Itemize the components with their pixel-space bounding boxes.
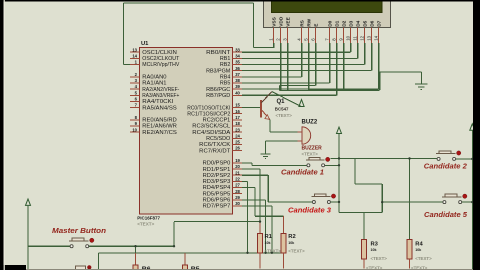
svg-text:R4: R4 (415, 241, 423, 247)
wire RB1-D4 horizontal (242, 57, 358, 59)
wire ground feed vertical (420, 72, 422, 84)
transistor Q1 collector diagonal (261, 92, 272, 103)
wire RD3 horizontal (242, 180, 248, 182)
pin 28 (RD5/PSP5) stub (233, 193, 243, 195)
svg-text:Master Button: Master Button (52, 226, 107, 235)
wire rail A horizontal (button pull network) (174, 221, 260, 223)
wire LCD D3 vertical (350, 43, 352, 52)
push button Candidate 2 left terminal (437, 157, 440, 160)
wire Candidate 5 right (462, 201, 472, 203)
svg-text:<TEXT>: <TEXT> (137, 222, 154, 227)
wire R6 from master net (135, 246, 137, 253)
wire LCD VDD vertical (280, 43, 282, 91)
resistor R3 bottom lead (363, 259, 365, 269)
svg-text:<TEXT>: <TEXT> (276, 113, 293, 118)
svg-text:RW: RW (307, 18, 313, 26)
resistor R5 body (183, 265, 188, 270)
wire link horizontal y184 (355, 183, 382, 185)
pin 2 (RA0/AN0) stub (130, 76, 140, 78)
pin 25 (RC6/TX/CK) stub (233, 143, 243, 145)
pin 39 (RB6/PGC) stub (233, 88, 243, 90)
svg-text:RC6/TX/CK: RC6/TX/CK (199, 142, 231, 148)
push button Candidate 1 actuator bar (306, 159, 325, 161)
resistor R4 body (407, 239, 412, 258)
wire RD6 vertical (265, 200, 267, 253)
wire master button left (28, 245, 70, 247)
wire RD3 vertical to bottom rail (247, 181, 249, 252)
svg-text:BC547: BC547 (275, 107, 289, 112)
push button Candidate 5 right terminal (459, 201, 462, 204)
pin 7 (RA5/AN4/SS) stub (130, 107, 140, 109)
pin 5 (RA3/AN3/VREF+) stub (130, 94, 140, 96)
LCD pin 12 (D5) stub (364, 28, 366, 44)
svg-text:RE0/AN5/RD: RE0/AN5/RD (142, 118, 177, 124)
svg-text:RB0/INT: RB0/INT (206, 50, 231, 56)
wire Candidate 1 right (325, 164, 339, 166)
svg-text:RB3/PGM: RB3/PGM (206, 68, 230, 74)
wire R2 rail horizontal (255, 215, 284, 217)
letterbox corner bottom-left (0, 265, 26, 270)
wire LCD RS vertical (301, 43, 303, 77)
wire MCLR net top horizontal (123, 2, 253, 4)
transistor Q1 emitter diagonal (262, 110, 270, 120)
junction dot rail RD6 (264, 252, 266, 254)
wire buzzer to ground (266, 140, 298, 142)
svg-text:14: 14 (132, 53, 137, 58)
IC U1 PIC16F877 microcontroller body (140, 48, 233, 215)
svg-text:10: 10 (345, 35, 350, 40)
pin 1 (MCLR/Vpp/THV) stub (130, 64, 140, 66)
svg-text:RD5/PSP5: RD5/PSP5 (203, 191, 231, 197)
resistor R3 body (362, 239, 367, 258)
push button Candidate 5 actuator bump (445, 194, 457, 197)
svg-text:RA3/AN3/VREF+: RA3/AN3/VREF+ (142, 93, 179, 99)
wire power stem x339 (338, 134, 340, 213)
ground symbol right of LCD (415, 83, 428, 85)
svg-text:RA5/AN4/SS: RA5/AN4/SS (142, 105, 177, 111)
wire RB5-D0 horizontal (242, 82, 330, 84)
svg-text:RD6/PSP6: RD6/PSP6 (203, 198, 231, 204)
svg-text:21: 21 (235, 170, 240, 175)
svg-text:27: 27 (235, 183, 240, 188)
svg-text:<TEXT>: <TEXT> (371, 256, 388, 261)
resistor R5 lead (184, 253, 186, 265)
pin 14 (OSC2/CLKOUT) stub (130, 57, 140, 59)
svg-text:10k: 10k (371, 248, 377, 252)
wire LCD D7 vertical (378, 43, 380, 89)
power symbol at Q1 collector (299, 100, 304, 107)
svg-text:OSC1/CLKIN: OSC1/CLKIN (142, 50, 177, 56)
svg-text:16: 16 (235, 109, 240, 114)
svg-text:RD3/PSP3: RD3/PSP3 (203, 179, 231, 185)
svg-text:VEE: VEE (286, 16, 292, 26)
push button Candidate 3 left terminal (312, 201, 315, 204)
power symbol at master button (26, 199, 31, 205)
push button Candidate 2 actuator bump (439, 151, 451, 154)
wire E vertical (315, 43, 317, 86)
transistor Q1 emitter arrowhead (265, 115, 270, 120)
wire VSS link horizontal (254, 46, 274, 48)
wire LCD D6 vertical (371, 43, 373, 71)
svg-text:RD7/PSP7: RD7/PSP7 (203, 204, 231, 210)
svg-text:15: 15 (235, 103, 240, 108)
wire buzzer ground vertical (265, 141, 267, 153)
junction dot R4 link (408, 157, 410, 159)
svg-text:RC3/SCK/SCL: RC3/SCK/SCL (192, 124, 230, 130)
wire RD2 vertical to Candidate 3 (267, 175, 269, 202)
svg-text:Candidate 2: Candidate 2 (424, 163, 467, 170)
ground symbol below buzzer (260, 153, 270, 155)
power symbol right rail (470, 124, 475, 130)
junction dot rail A R1 (259, 220, 261, 222)
wire RB4-RS horizontal (242, 76, 302, 78)
push button Candidate 1 actuator dot (326, 157, 330, 161)
svg-text:RB7/PGD: RB7/PGD (206, 93, 230, 99)
wire RD4 horizontal (242, 187, 255, 189)
wire RB6-D7 horizontal (242, 88, 379, 90)
svg-text:RA0/AN0: RA0/AN0 (142, 75, 166, 81)
svg-text:RD4/PSP4: RD4/PSP4 (203, 185, 231, 191)
svg-text:D6: D6 (370, 20, 376, 26)
LCD pin 1 (VSS) stub (273, 28, 275, 44)
pin 24 (RC5/SDO) stub (233, 137, 243, 139)
wire RC0 to Q1 base (242, 107, 261, 109)
svg-text:Q1: Q1 (277, 99, 286, 105)
svg-text:26: 26 (235, 146, 240, 151)
wire Candidate 2 right (456, 158, 473, 160)
svg-text:30: 30 (235, 201, 240, 206)
svg-text:D2: D2 (342, 20, 348, 26)
svg-text:RD1/PSP1: RD1/PSP1 (203, 167, 231, 173)
svg-text:RD0/PSP0: RD0/PSP0 (203, 161, 231, 167)
svg-text:10k: 10k (288, 241, 294, 245)
junction dot rail RD7 (271, 252, 273, 254)
svg-text:OSC2/CLKOUT: OSC2/CLKOUT (142, 56, 180, 62)
push button Master Button left terminal (70, 245, 73, 248)
push button Master Button right terminal (86, 245, 89, 248)
pin 15 (RC0/T1OSO/T1CKI) stub (233, 107, 243, 109)
LCD pin 5 (RW) stub (308, 28, 310, 44)
wire RW to ground horizontal (309, 89, 380, 91)
wire LCD VEE vertical (287, 43, 289, 91)
wire R3 riser (363, 213, 365, 240)
wire Q1 emitter down (269, 120, 271, 133)
svg-text:28: 28 (235, 189, 240, 194)
svg-text:13: 13 (366, 35, 371, 40)
wire Candidate 3 right (331, 201, 339, 203)
wire RD0 to Candidate 1 (242, 162, 252, 164)
push button Candidate 2 right terminal (453, 157, 456, 160)
svg-text:PIC16F877: PIC16F877 (137, 216, 160, 221)
svg-text:Candidate 1: Candidate 1 (281, 169, 324, 176)
svg-text:40: 40 (235, 90, 240, 95)
svg-text:RD2/PSP2: RD2/PSP2 (203, 173, 231, 179)
svg-text:<TEXT>: <TEXT> (288, 249, 305, 254)
wire LCD D2 vertical (343, 43, 345, 91)
svg-text:RB4: RB4 (220, 75, 231, 81)
LCD pin 4 (RS) stub (301, 28, 303, 44)
LCD pin 14 (D7) stub (378, 28, 380, 44)
push button Candidate 5 left terminal (443, 201, 446, 204)
wire bottom rail left drop (98, 253, 100, 270)
wire LCD RW vertical (308, 43, 310, 90)
pin 40 (RB7/PGD) stub (233, 94, 243, 96)
push button Candidate 2 actuator bar (436, 153, 456, 155)
wire link vertical x355 (354, 159, 356, 185)
wire R4 riser (409, 159, 411, 240)
svg-text:RE1/AN6/WR: RE1/AN6/WR (142, 124, 177, 130)
svg-text:RC0/T1OSO/T1CKI: RC0/T1OSO/T1CKI (187, 105, 230, 111)
wire VEE/VDD ground bundle horizontal (280, 89, 344, 91)
svg-text:RB6/PGC: RB6/PGC (206, 87, 230, 93)
svg-text:25: 25 (235, 140, 240, 145)
svg-text:RA4/T0CKI: RA4/T0CKI (142, 99, 173, 105)
LCD pin 10 (D3) stub (350, 28, 352, 44)
wire link horizontal y212 (339, 212, 382, 214)
resistor R1 body (257, 233, 262, 253)
pin 33 (RB0/INT) stub (233, 51, 243, 53)
wire LCD D0 vertical (329, 43, 331, 83)
svg-text:RB2: RB2 (220, 62, 231, 68)
svg-text:R1: R1 (265, 234, 273, 240)
svg-text:RS: RS (300, 19, 306, 26)
push button partial at bottom edge (74, 269, 91, 270)
wire Q1 collector to power diagonal (272, 92, 302, 107)
svg-text:D1: D1 (335, 20, 341, 26)
pin 35 (RB2) stub (233, 64, 243, 66)
svg-text:13: 13 (132, 47, 137, 52)
svg-text:RA1/AN1: RA1/AN1 (142, 81, 166, 87)
svg-text:23: 23 (235, 127, 240, 132)
junction dot stem C3 (338, 201, 340, 203)
wire node link horizontal y158 (331, 158, 438, 160)
wire RD4 vertical to R2 rail (254, 188, 256, 217)
pin 6 (RA4/T0CKI) stub (130, 100, 140, 102)
wire RD1 vertical to R1 rail (259, 169, 261, 222)
resistor R2 bottom lead (283, 253, 285, 269)
svg-text:24: 24 (235, 133, 240, 138)
pin 3 (RA1/AN1) stub (130, 82, 140, 84)
pin 13 (OSC1/CLKIN) stub (130, 51, 140, 53)
pin 9 (RE1/AN6/WR) stub (130, 125, 140, 127)
LCD pin 8 (D1) stub (336, 28, 338, 44)
buzzer BUZ2 body (302, 127, 311, 144)
pin 34 (RB1) stub (233, 57, 243, 59)
LCD pin 6 (E) stub (315, 28, 317, 44)
push button Master Button actuator bump (72, 238, 84, 241)
svg-text:RB1: RB1 (220, 56, 231, 62)
junction dot master riser (173, 245, 175, 247)
svg-text:Candidate 3: Candidate 3 (288, 207, 331, 214)
svg-text:MCLR/Vpp/THV: MCLR/Vpp/THV (142, 62, 180, 68)
svg-text:RC7/RX/DT: RC7/RX/DT (199, 148, 231, 154)
push button Candidate 1 left terminal (307, 164, 310, 167)
pin 17 (RC2/CCP1) stub (233, 119, 243, 121)
junction dot C5 right rail (471, 201, 473, 203)
svg-text:34: 34 (235, 53, 240, 58)
wire master power stem (27, 206, 29, 270)
pin 30 (RD7/PSP7) stub (233, 205, 243, 207)
transistor Q1 base bar (260, 100, 262, 118)
push button Master Button actuator dot (90, 238, 94, 242)
svg-text:RB5: RB5 (220, 81, 231, 87)
svg-text:D7: D7 (377, 20, 383, 26)
svg-text:29: 29 (235, 195, 240, 200)
push button Candidate 3 actuator bump (314, 194, 326, 197)
svg-text:RC4/SDI/SDA: RC4/SDI/SDA (192, 130, 231, 136)
wire master button riser (173, 222, 175, 246)
svg-text:37: 37 (235, 72, 240, 77)
wire ground feed horizontal (380, 71, 422, 73)
pin 27 (RD4/PSP4) stub (233, 187, 243, 189)
pin 18 (RC3/SCK/SCL) stub (233, 125, 243, 127)
junction dot C5 left riser (381, 201, 383, 203)
svg-text:20: 20 (235, 164, 240, 169)
wire RB7-D1 horizontal (242, 94, 337, 96)
LCD pin 3 (VEE) stub (287, 28, 289, 44)
svg-text:D5: D5 (363, 20, 369, 26)
svg-text:RE2/AN7/CS: RE2/AN7/CS (142, 130, 177, 136)
pin 16 (RC1/T1OSI/CCP2) stub (233, 113, 243, 115)
wire bottom rail horizontal (99, 252, 284, 254)
wire RB2-D5 horizontal (242, 64, 365, 66)
wire RB3-D6 horizontal (242, 70, 372, 72)
junction dot stem C1 (338, 164, 340, 166)
svg-text:12: 12 (359, 35, 364, 40)
LCD pin 7 (D0) stub (329, 28, 331, 44)
wire master button right (89, 245, 174, 247)
wire RD2 horizontal (242, 174, 268, 176)
wire E jog down (279, 85, 281, 90)
pin 38 (RB5) stub (233, 82, 243, 84)
LCD screen area (272, 0, 383, 12)
push button Candidate 3 actuator dot (331, 194, 335, 198)
wire RD6 horizontal (242, 199, 266, 201)
LCD pin 9 (D2) stub (343, 28, 345, 44)
wire Candidate 3 left horizontal (268, 201, 312, 203)
junction dot rail RD3 (246, 252, 248, 254)
junction dot master/R6 (134, 245, 136, 247)
svg-text:U1: U1 (141, 41, 149, 47)
pin 8 (RE0/AN5/RD) stub (130, 119, 140, 121)
resistor R1 bottom lead (259, 253, 261, 269)
push button Candidate 2 actuator dot (457, 151, 461, 155)
svg-text:35: 35 (235, 60, 240, 65)
svg-text:RC5/SDO: RC5/SDO (206, 136, 230, 142)
wire right power rail vertical (471, 130, 473, 270)
svg-text:18: 18 (235, 121, 240, 126)
resistor R2 body (281, 233, 286, 253)
pin 20 (RD1/PSP1) stub (233, 168, 243, 170)
svg-text:RA2/AN2/VREF-: RA2/AN2/VREF- (142, 87, 179, 93)
svg-text:BUZ2: BUZ2 (302, 120, 318, 126)
svg-text:R2: R2 (288, 234, 295, 240)
svg-text:10k: 10k (415, 248, 421, 252)
svg-text:<TEXT>: <TEXT> (302, 152, 319, 157)
svg-text:D3: D3 (349, 20, 355, 26)
wire Candidate 5 left (382, 201, 443, 203)
LCD pin 11 (D4) stub (357, 28, 359, 44)
pin 26 (RC7/RX/DT) stub (233, 150, 243, 152)
svg-text:38: 38 (235, 78, 240, 83)
svg-text:17: 17 (235, 115, 240, 120)
pin 36 (RB3/PGM) stub (233, 70, 243, 72)
push button Candidate 3 right terminal (327, 201, 330, 204)
svg-text:VDD: VDD (279, 16, 285, 27)
push button Master Button actuator bar (69, 240, 89, 242)
push button Candidate 5 actuator dot (463, 194, 467, 198)
push button Candidate 5 actuator bar (442, 196, 462, 198)
wire RB0-D3 horizontal (242, 51, 351, 53)
junction dot C2 right rail (471, 158, 473, 160)
svg-text:36: 36 (235, 66, 240, 71)
resistor R4 bottom lead (409, 259, 411, 269)
pin 29 (RD6/PSP6) stub (233, 199, 243, 201)
svg-text:Candidate 5: Candidate 5 (424, 212, 467, 219)
LCD pin 2 (VDD) stub (280, 28, 282, 44)
svg-text:10k: 10k (265, 241, 271, 245)
buzzer BUZ2 pin stubs (298, 131, 303, 133)
letterbox bar right (473, 0, 480, 270)
svg-text:RC2/CCP1: RC2/CCP1 (203, 118, 231, 124)
letterbox bar top (0, 0, 480, 2)
pin 37 (RB4) stub (233, 76, 243, 78)
wire E horizontal jog (280, 84, 316, 86)
wire R2 top lead (283, 216, 285, 233)
svg-text:10: 10 (132, 127, 137, 132)
svg-text:39: 39 (235, 84, 240, 89)
letterbox bar left (0, 0, 4, 270)
junction dot stem link (338, 157, 340, 159)
wire LCD D4 vertical (357, 43, 359, 59)
push button Candidate 3 actuator bar (311, 196, 330, 198)
wire RD7 vertical (271, 206, 273, 253)
push button Candidate 1 actuator bump (309, 157, 320, 160)
svg-text:<TEXT>: <TEXT> (415, 256, 432, 261)
wire RD1 horizontal (242, 168, 260, 170)
push button Candidate 1 right terminal (322, 164, 325, 167)
svg-text:19: 19 (235, 158, 240, 163)
wire MCLR net to pin 1 (123, 64, 130, 66)
LCD pin 13 (D6) stub (371, 28, 373, 44)
wire emitter to buzzer (270, 131, 302, 133)
resistor R6 lead (135, 253, 137, 265)
svg-text:BUZZER: BUZZER (302, 146, 323, 152)
pin 21 (RD2/PSP2) stub (233, 174, 243, 176)
bottom edge smear (26, 268, 480, 270)
svg-text:22: 22 (235, 176, 240, 181)
pin 19 (RD0/PSP0) stub (233, 162, 243, 164)
svg-text:D4: D4 (356, 20, 362, 26)
svg-text:R3: R3 (371, 241, 379, 247)
LCD display LCD1 body (264, 0, 391, 28)
svg-text:RC1/T1OSI/CCP2: RC1/T1OSI/CCP2 (187, 111, 230, 117)
svg-text:11: 11 (352, 36, 357, 41)
power symbol above Candidate 1 (337, 127, 342, 133)
wire LCD D1 vertical (336, 43, 338, 95)
pin 10 (RE2/AN7/CS) stub (130, 131, 140, 133)
pin 4 (RA2/AN2/VREF-) stub (130, 88, 140, 90)
resistor R6 body (133, 265, 138, 270)
wire link vertical x382 (381, 184, 383, 212)
wire MCLR net right vertical to LCD VSS (253, 3, 255, 48)
pin 23 (RC4/SDI/SDA) stub (233, 131, 243, 133)
svg-text:33: 33 (235, 47, 240, 52)
wire LCD VSS vertical (273, 43, 275, 48)
wire RW ground riser (379, 72, 381, 90)
wire MCLR net left vertical (122, 3, 124, 65)
svg-text:D0: D0 (328, 20, 334, 26)
